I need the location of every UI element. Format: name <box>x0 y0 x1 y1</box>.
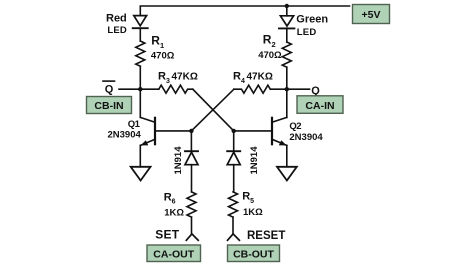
ground Q2 <box>277 167 297 181</box>
label Q2 <box>289 121 301 132</box>
wire Q stub <box>287 88 310 90</box>
svg-text:2N3904: 2N3904 <box>108 129 142 140</box>
svg-text:47KΩ: 47KΩ <box>172 72 198 83</box>
svg-text:LED: LED <box>297 27 317 38</box>
port SET arrow <box>186 234 198 240</box>
svg-text:1N914: 1N914 <box>173 146 184 175</box>
resistor R4 <box>234 85 270 93</box>
wire D4 to R5 <box>233 165 235 192</box>
label R5 1K ohm <box>242 191 263 218</box>
resistor R5 <box>229 192 238 217</box>
resistor R2 <box>282 42 291 67</box>
wire Q2 base node to D4 <box>233 131 235 151</box>
label R4 47K ohm <box>233 71 273 85</box>
label D4 1N914 <box>249 146 260 175</box>
wire Qbar stub <box>119 88 140 90</box>
svg-text:2N3904: 2N3904 <box>289 132 323 143</box>
label R6 1K ohm <box>164 191 185 218</box>
svg-text:R2: R2 <box>263 33 276 50</box>
wire Q2 base lead <box>234 130 272 132</box>
svg-text:CB-OUT: CB-OUT <box>233 249 274 261</box>
svg-text:1KΩ: 1KΩ <box>243 207 263 218</box>
svg-text:R3: R3 <box>158 71 170 85</box>
svg-text:LED: LED <box>107 25 127 36</box>
diode D3 1N914 <box>185 151 198 165</box>
svg-text:47KΩ: 47KΩ <box>247 72 273 83</box>
svg-text:SET: SET <box>155 228 179 242</box>
wire Q1 base node to D3 <box>190 131 192 151</box>
wire top +5V rail <box>140 6 349 16</box>
node Q2 base junction <box>232 129 236 133</box>
label RESET <box>247 230 285 242</box>
wire Q1 emitter to ground <box>139 145 141 166</box>
wire Qbar to R3 <box>140 88 159 90</box>
wire top to LED2 <box>286 6 288 16</box>
wire LED1 to R1 <box>139 28 141 41</box>
svg-text:R1: R1 <box>151 34 164 51</box>
LED D1 red <box>133 16 148 29</box>
svg-text:CA-IN: CA-IN <box>305 100 334 112</box>
ground Q1 <box>131 167 151 181</box>
node Qbar label <box>103 81 115 95</box>
wire R6 to SET port <box>191 217 193 234</box>
wire LED2 to R2 <box>286 28 288 42</box>
wire R1 to Q1 collector <box>139 66 141 117</box>
svg-text:1KΩ: 1KΩ <box>164 208 184 219</box>
svg-text:470Ω: 470Ω <box>151 51 175 62</box>
node Q junction <box>285 87 289 91</box>
node Q1 base junction <box>189 129 193 133</box>
LED D2 green <box>279 16 294 29</box>
label Q1 <box>128 119 141 130</box>
label D3 1N914 <box>173 146 184 175</box>
power +5V box <box>353 5 390 24</box>
svg-text:Q2: Q2 <box>289 121 301 132</box>
port RESET arrow <box>228 234 240 240</box>
port CA-IN box <box>297 96 343 114</box>
svg-text:1N914: 1N914 <box>249 146 260 175</box>
wire R5 to RESET port <box>232 217 234 234</box>
svg-text:+5V: +5V <box>362 9 381 21</box>
label Q1 2N3904 <box>108 129 142 140</box>
wire Q1 base lead <box>155 130 191 132</box>
port CA-OUT box <box>147 245 201 262</box>
diode D4 1N914 <box>227 151 240 165</box>
svg-text:RESET: RESET <box>247 230 285 242</box>
svg-text:R6: R6 <box>164 191 176 205</box>
svg-text:470Ω: 470Ω <box>258 50 282 61</box>
resistor R6 <box>187 192 196 217</box>
svg-text:CB-IN: CB-IN <box>94 100 123 112</box>
label R2 470 ohm <box>258 33 282 62</box>
label Q2 2N3904 <box>289 132 323 143</box>
port CB-IN box <box>87 97 132 114</box>
svg-text:Green: Green <box>296 14 328 26</box>
svg-text:CA-OUT: CA-OUT <box>153 249 194 261</box>
wire Q to R4 <box>270 88 287 90</box>
resistor R3 <box>159 85 193 93</box>
wire Q2 emitter to ground <box>286 145 288 166</box>
node Qbar junction <box>138 87 142 91</box>
label R3 47K ohm <box>158 71 198 85</box>
wire D3 to R6 <box>191 165 193 192</box>
svg-text:Q: Q <box>311 85 320 97</box>
wire R4 diagonal to Q1 base node <box>191 89 234 131</box>
svg-text:Red: Red <box>106 13 127 25</box>
transistor Q1 <box>140 117 155 145</box>
svg-text:R4: R4 <box>233 71 245 85</box>
label Green LED <box>296 14 328 38</box>
wire R3 diagonal to Q2 base node <box>193 89 234 131</box>
transistor Q2 <box>272 117 287 145</box>
wire R2 to Q2 collector <box>286 67 288 117</box>
svg-text:Q: Q <box>105 83 114 95</box>
label SET <box>155 228 179 242</box>
port CB-OUT box <box>228 245 280 262</box>
svg-text:R5: R5 <box>242 191 254 205</box>
label R1 470 ohm <box>151 34 175 62</box>
node Q label <box>311 85 320 97</box>
node top rail junction <box>285 4 289 8</box>
resistor R1 <box>136 41 145 66</box>
label Red LED <box>106 13 127 36</box>
